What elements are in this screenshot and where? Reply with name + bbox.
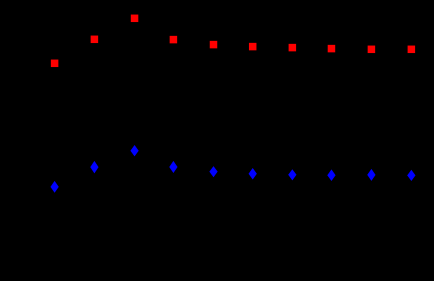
red square series (series 1) (51, 15, 415, 68)
point S10 (408, 46, 416, 54)
point S5 (210, 41, 218, 49)
point D8 (327, 169, 335, 181)
point D6 (249, 168, 257, 180)
point S8 (328, 45, 336, 53)
point D5 (209, 166, 217, 177)
point D4 (169, 161, 177, 173)
point S2 (91, 36, 99, 44)
point S7 (289, 44, 297, 52)
point D1 (50, 181, 58, 193)
point S3 (131, 15, 139, 22)
point D7 (288, 169, 296, 180)
point S6 (249, 43, 257, 51)
point D3 (130, 145, 138, 156)
blue tall-diamond series (series 2) (50, 145, 415, 193)
point S1 (51, 60, 59, 68)
point D2 (90, 161, 98, 174)
point D10 (407, 170, 415, 181)
point S4 (170, 36, 178, 44)
point D9 (367, 169, 375, 181)
point S9 (368, 46, 376, 54)
